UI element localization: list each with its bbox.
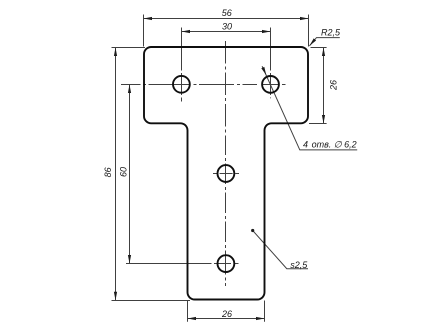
svg-text:30: 30: [222, 22, 232, 32]
svg-text:26: 26: [329, 80, 339, 91]
svg-text:R2,5: R2,5: [321, 28, 341, 38]
svg-text:s2,5: s2,5: [290, 260, 308, 270]
svg-text:56: 56: [222, 8, 232, 18]
svg-text:4 отв. ∅ 6,2: 4 отв. ∅ 6,2: [303, 140, 357, 150]
svg-text:60: 60: [119, 167, 129, 177]
svg-text:26: 26: [221, 309, 232, 319]
svg-text:86: 86: [103, 167, 113, 177]
